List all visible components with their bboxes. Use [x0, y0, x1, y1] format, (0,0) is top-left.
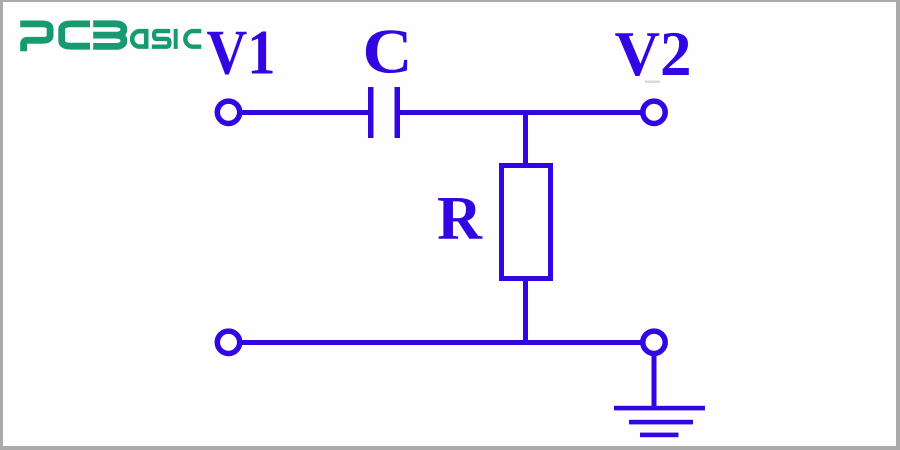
ground symbol bar 3: [640, 433, 679, 438]
terminal V2 circle: [643, 101, 665, 123]
underscore artifact under V2: [645, 81, 660, 84]
ground symbol bar 1: [614, 406, 705, 411]
capacitor C left plate: [368, 87, 374, 138]
svg-text:C: C: [363, 17, 413, 87]
terminal bottom-right circle: [643, 331, 665, 353]
wire junction vertical to resistor: [523, 112, 528, 165]
logo PCBasic: [20, 24, 201, 51]
wire resistor to bottom: [523, 279, 528, 343]
svg-text:V1: V1: [207, 18, 276, 88]
capacitor C right plate: [395, 87, 401, 138]
wire to ground: [652, 354, 657, 408]
ground symbol bar 2: [629, 420, 693, 425]
wire top-right: [400, 110, 642, 115]
resistor R body: [502, 166, 551, 279]
terminal bottom-left circle: [217, 331, 239, 353]
svg-text:V2: V2: [615, 19, 692, 89]
svg-text:R: R: [437, 185, 483, 253]
terminal V1 circle: [217, 101, 239, 123]
wire bottom: [240, 340, 642, 345]
wire top-left: [240, 110, 368, 115]
